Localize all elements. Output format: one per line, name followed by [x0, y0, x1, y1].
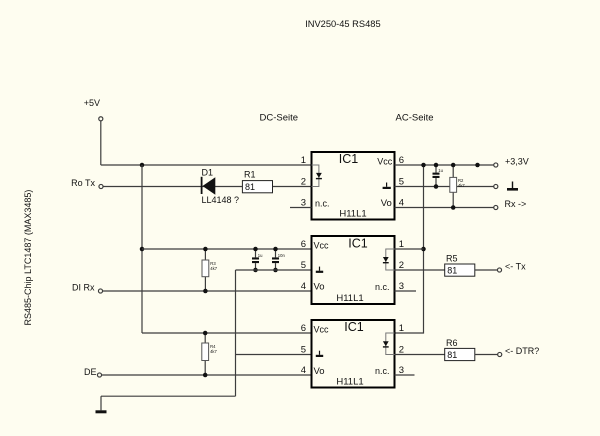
svg-text:5: 5	[301, 260, 306, 271]
pin numbers IC1 bottom left	[301, 323, 306, 376]
wire ground vertical	[235, 270, 237, 396]
node middle pin1	[421, 247, 426, 252]
svg-text:IC1: IC1	[344, 320, 364, 334]
pin 3 stub IC1 middle	[395, 290, 417, 292]
svg-text:1: 1	[301, 155, 306, 166]
svg-text:5: 5	[301, 344, 306, 355]
LED inside IC1 top	[312, 165, 322, 187]
svg-text:DI Rx: DI Rx	[72, 283, 95, 293]
ground symbol AC	[507, 182, 518, 191]
svg-text:2: 2	[399, 260, 404, 271]
svg-text:H11L1: H11L1	[336, 377, 363, 388]
svg-text:DE: DE	[84, 367, 97, 377]
svg-text:n.c.: n.c.	[375, 282, 390, 292]
resistor R1	[242, 170, 272, 193]
node C3 bottom	[273, 268, 278, 273]
svg-text:1u: 1u	[258, 253, 263, 258]
svg-text:3: 3	[301, 197, 306, 208]
pin 3 stub IC1 top	[290, 207, 312, 209]
node C2 bottom	[253, 268, 258, 273]
svg-text:Vo: Vo	[381, 198, 392, 209]
svg-text:n.c.: n.c.	[375, 366, 390, 376]
node C1 top	[434, 163, 439, 168]
opto-coupler IC1 bottom	[312, 320, 395, 388]
svg-text:D1: D1	[202, 168, 214, 178]
svg-text:81: 81	[447, 265, 457, 275]
svg-text:4: 4	[301, 365, 306, 376]
node junction rail1	[140, 163, 145, 168]
svg-text:+5V: +5V	[84, 98, 100, 108]
node R2 bottom	[451, 205, 456, 210]
svg-text:Rx ->: Rx ->	[505, 199, 527, 209]
node junction rail2	[140, 247, 145, 252]
resistor R5	[445, 254, 475, 277]
svg-text:DC-Seite: DC-Seite	[260, 113, 299, 124]
svg-text:1: 1	[399, 239, 404, 250]
svg-text:4k7: 4k7	[210, 349, 217, 354]
svg-text:6: 6	[301, 239, 306, 250]
wire DE to pin4	[102, 374, 312, 376]
node R4 bottom	[203, 373, 208, 378]
svg-text:<- DTR?: <- DTR?	[505, 346, 539, 356]
node C3 top	[273, 247, 278, 252]
svg-text:4k7: 4k7	[458, 183, 465, 188]
svg-text:IC1: IC1	[339, 152, 359, 166]
terminal Rx	[494, 199, 527, 210]
wire ground stem	[100, 396, 102, 410]
svg-text:81: 81	[245, 182, 255, 192]
svg-text:Ro Tx: Ro Tx	[71, 178, 95, 188]
pin 3 stub IC1 bottom	[395, 374, 415, 376]
svg-text:1: 1	[399, 323, 404, 334]
wire middle pin2 to R5	[395, 269, 445, 271]
wire DI Rx to pin4	[103, 290, 312, 292]
node R3 bottom	[203, 289, 208, 294]
wire pin5 middle to ground vertical	[236, 269, 312, 271]
svg-text:RS485-Chip LTC1487 (MAX3485): RS485-Chip LTC1487 (MAX3485)	[23, 190, 33, 326]
svg-text:Vcc: Vcc	[377, 157, 393, 167]
wire pin6 top to +3,3V	[395, 164, 494, 166]
svg-text:Vcc: Vcc	[314, 325, 330, 335]
ground symbol inside IC1 middle	[316, 267, 323, 273]
terminal +5V	[84, 98, 103, 121]
svg-text:R5: R5	[446, 254, 458, 264]
wire pin4 top to Rx	[395, 207, 494, 209]
node R4 top	[203, 331, 208, 336]
svg-text:3: 3	[399, 281, 404, 292]
opto-coupler IC1 top	[312, 152, 395, 220]
node R3 top	[203, 247, 208, 252]
wire rail3 Vcc bottom	[142, 332, 312, 334]
svg-text:AC-Seite: AC-Seite	[396, 113, 434, 124]
svg-text:6: 6	[399, 155, 404, 166]
svg-text:R6: R6	[446, 338, 458, 348]
svg-text:5: 5	[399, 176, 404, 187]
svg-text:1u: 1u	[438, 168, 443, 173]
node R2 top	[451, 163, 456, 168]
svg-text:H11L1: H11L1	[339, 209, 366, 220]
terminal Ro Tx	[71, 178, 103, 189]
wire rail2 Vcc middle	[142, 248, 312, 250]
svg-text:Vo: Vo	[314, 282, 325, 293]
node C2 top	[253, 247, 258, 252]
resistor R2	[450, 165, 466, 208]
ground symbol inside IC1 bottom	[316, 351, 323, 357]
svg-text:3: 3	[399, 365, 404, 376]
wire bottom pin2 to R6	[395, 354, 445, 356]
capacitor C3	[272, 249, 285, 270]
wire +5V stem	[100, 121, 102, 165]
wire pin5 bottom to ground vertical	[236, 354, 312, 356]
svg-text:4k7: 4k7	[210, 266, 217, 271]
svg-text:4: 4	[399, 197, 404, 208]
svg-text:IC1: IC1	[348, 237, 368, 251]
svg-text:<- Tx: <- Tx	[505, 262, 526, 272]
wire +3,3V down to LED anodes	[395, 165, 424, 333]
ground symbol inside IC1 top	[383, 183, 391, 190]
wire pin5 top to AC ground	[395, 186, 494, 188]
svg-text:+3,3V: +3,3V	[505, 157, 529, 167]
opto-coupler IC1 middle	[312, 236, 395, 304]
capacitor C2	[252, 249, 263, 270]
pin numbers IC1 middle left	[301, 239, 306, 292]
wire +5V vertical	[141, 165, 143, 333]
terminal Tx	[497, 262, 526, 272]
svg-text:6: 6	[301, 323, 306, 334]
node C1 bottom	[434, 184, 439, 189]
svg-text:4: 4	[301, 281, 306, 292]
wire R5 to Tx terminal	[475, 269, 498, 271]
svg-text:2: 2	[399, 344, 404, 355]
terminal DE	[84, 367, 102, 377]
wire Ro Tx to pin2	[103, 186, 311, 188]
pin numbers IC1 middle right	[399, 239, 404, 292]
terminal DTR	[498, 346, 540, 356]
pin numbers IC1 bottom right	[399, 323, 404, 376]
svg-text:Vo: Vo	[314, 366, 325, 377]
ground DC	[96, 410, 107, 413]
node vertical top	[421, 163, 426, 168]
node pin6 top extra	[475, 163, 480, 168]
svg-text:n.c.: n.c.	[315, 199, 330, 209]
wire rail1 +5V	[101, 164, 312, 166]
svg-text:2: 2	[301, 176, 306, 187]
svg-text:INV250-45 RS485: INV250-45 RS485	[305, 19, 380, 29]
terminal +3,3V	[494, 157, 529, 167]
svg-text:10n: 10n	[278, 253, 286, 258]
pin numbers IC1 top left	[301, 155, 306, 209]
resistor R4	[202, 333, 218, 375]
svg-text:R1: R1	[244, 170, 256, 180]
resistor R6	[445, 338, 475, 361]
svg-text:Vcc: Vcc	[314, 241, 330, 251]
LED inside IC1 bottom	[383, 333, 395, 355]
diode D1	[201, 168, 239, 206]
capacitor C1 AC	[433, 165, 444, 187]
svg-text:H11L1: H11L1	[336, 293, 363, 304]
svg-text:81: 81	[447, 350, 457, 360]
resistor R3	[202, 249, 218, 291]
svg-text:LL4148 ?: LL4148 ?	[202, 195, 240, 205]
wire middle pin1	[395, 248, 424, 250]
wire ground horizontal	[101, 395, 236, 397]
terminal AC ground	[494, 184, 498, 188]
wire R6 to DTR terminal	[475, 354, 498, 356]
pin numbers IC1 top right	[399, 155, 404, 209]
LED inside IC1 middle	[383, 249, 395, 270]
terminal DI Rx	[72, 283, 103, 294]
